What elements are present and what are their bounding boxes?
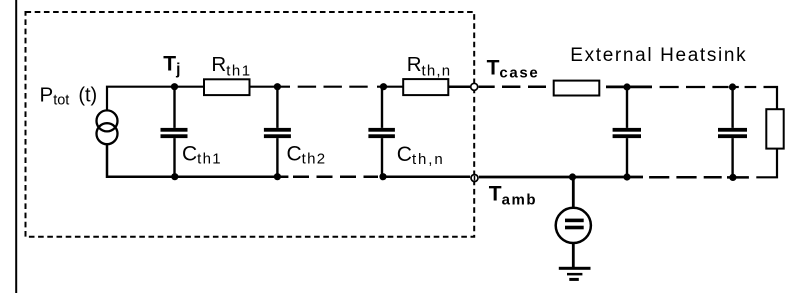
node T_amb open circle [471,175,478,182]
capacitor C_th1 top lead wire [173,87,175,128]
svg-text:Cth,n: Cth,n [397,143,445,168]
svg-text:Rth1: Rth1 [211,53,251,80]
node junction dot bottom 3 [379,173,386,180]
wire top right corner into vertical resistor [764,87,778,109]
capacitor C_th2 bottom lead wire [276,138,278,177]
wire heatsink resistor right lead [606,86,652,89]
wire (dashed) top rail heatsink [660,86,729,88]
capacitor C_th1 bottom lead wire [173,138,175,177]
capacitor C_th,n bottom lead wire [381,138,383,177]
capacitor heatsink 1 plates [613,128,641,138]
wire bottom rail node3 to T_amb [380,175,470,178]
current source P_tot (two overlapping circles) [97,110,118,144]
node T_j junction dot [171,83,178,90]
wire dash before top right corner [745,86,757,88]
node junction dot top 2 [274,83,281,90]
capacitor heatsink 1 top lead wire [626,87,628,128]
capacitor heatsink 2 plates [718,128,747,138]
capacitor C_th,n plates [368,128,395,138]
node junction dot bottom 2 [274,173,281,180]
wire stub right of node bottom 6 [727,176,749,179]
current source bottom lead + bottom rail wire to C_th2 [107,144,288,177]
capacitor C_th2 top lead wire [276,87,278,128]
wire bottom right corner into vertical resistor [756,149,777,178]
voltage source bottom lead wire [572,243,575,267]
svg-text:Cth2: Cth2 [287,142,327,167]
node junction dot top 4 [623,83,630,90]
capacitor heatsink 2 top lead wire [731,87,733,128]
dashed model boundary box [26,12,475,237]
wire (dashed) top rail continuation [298,86,369,88]
node T_case open circle [471,83,478,90]
svg-text:Tamb: Tamb [489,183,537,209]
capacitor C_th2 plates [264,128,291,138]
resistor R_th1 [204,79,250,95]
wire (dashed) T_case to heatsink resistor [502,86,546,89]
wire top rail into R_th,n [377,86,403,88]
node junction dot bottom 4 (voltage source tap) [569,173,576,180]
voltage source T_amb (circle) [556,208,591,243]
capacitor C_th,n top lead wire [381,87,383,128]
svg-text:Rth,n: Rth,n [407,53,452,80]
resistor external heatsink (horizontal) [554,81,600,96]
node junction dot bottom 6 [729,174,736,181]
node junction dot top 5 [729,83,736,90]
capacitor heatsink 1 bottom lead wire [626,138,628,177]
svg-text:Tj: Tj [163,52,180,78]
svg-text:Ptot(t): Ptot(t) [40,84,98,109]
page border frame line [15,0,17,293]
wire R_th,n right lead to T_case [448,85,470,88]
node junction dot bottom 1 [171,173,178,180]
voltage source bars [565,219,584,230]
svg-text:Tcase: Tcase [487,56,540,81]
capacitor C_th1 plates [161,128,188,138]
ground symbol [559,267,591,281]
capacitor heatsink 2 bottom lead wire [731,138,733,177]
node junction dot top 3 [380,83,387,90]
svg-text:Cth1: Cth1 [182,142,222,167]
resistor R_th,n [403,79,448,95]
wire bottom rail T_amb to heatsink [479,176,643,179]
wire stub right of T_case [479,86,495,89]
voltage source T_amb top lead wire [572,177,575,208]
resistor heatsink (vertical) [766,109,783,148]
wire (dashed) bottom rail continuation [293,175,378,178]
current source P_tot top lead wire [107,87,204,111]
node junction dot bottom 5 [623,173,630,180]
wire R_th1 right lead to node 2 [250,86,291,88]
svg-text:External Heatsink: External Heatsink [570,45,747,66]
dashed tick inside T_amb circle [474,176,476,181]
wire (dashed) bottom rail heatsink [649,176,722,179]
wire stub right of node top 5 [733,86,739,88]
